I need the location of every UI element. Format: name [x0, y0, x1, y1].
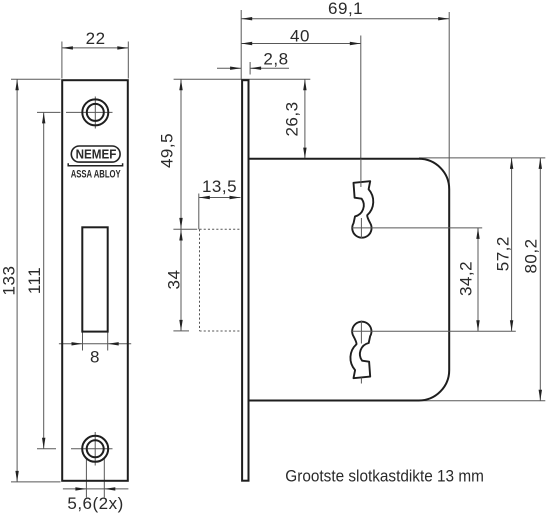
- svg-text:57,2: 57,2: [494, 236, 513, 271]
- svg-text:80,2: 80,2: [522, 238, 541, 273]
- svg-text:2,8: 2,8: [263, 50, 288, 69]
- svg-text:Grootste slotkastdikte 13 mm: Grootste slotkastdikte 13 mm: [285, 467, 484, 486]
- svg-text:49,5: 49,5: [158, 133, 177, 168]
- svg-text:40: 40: [290, 27, 310, 46]
- svg-text:13,5: 13,5: [202, 177, 237, 196]
- svg-text:133: 133: [0, 266, 19, 296]
- svg-text:5,6(2x): 5,6(2x): [67, 494, 123, 513]
- svg-text:34: 34: [165, 270, 184, 290]
- svg-text:22: 22: [86, 29, 106, 48]
- svg-text:26,3: 26,3: [283, 101, 302, 136]
- svg-text:ASSA ABLOY: ASSA ABLOY: [71, 169, 121, 181]
- svg-text:69,1: 69,1: [328, 0, 363, 18]
- svg-text:NEMEF: NEMEF: [76, 147, 117, 161]
- svg-text:34,2: 34,2: [457, 261, 476, 296]
- svg-text:8: 8: [90, 348, 100, 367]
- svg-text:111: 111: [25, 267, 44, 294]
